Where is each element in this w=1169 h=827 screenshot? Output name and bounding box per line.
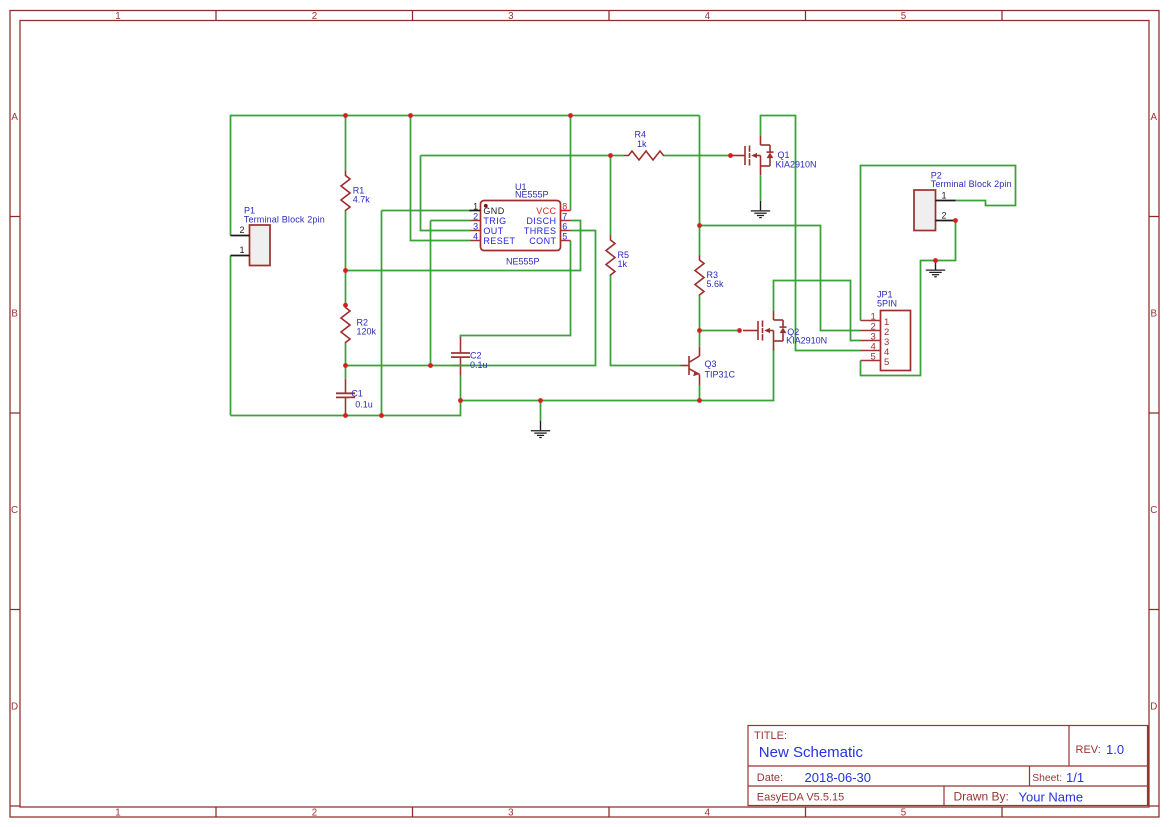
junction [953,218,958,223]
junction [428,363,433,368]
svg-text:1.0: 1.0 [1106,742,1124,757]
resistor R5 [606,236,615,276]
ground at bottom rail [531,421,550,438]
junction [697,223,702,228]
svg-text:2: 2 [312,11,317,22]
svg-text:3: 3 [473,221,478,231]
wire crossing over C2 pin [452,365,469,367]
wire ground rail bottom [231,350,774,416]
svg-text:4.7k: 4.7k [353,195,371,205]
connector JP1 5PIN body [881,311,911,371]
wire P1 pin1 to ground rail [230,256,232,416]
JP1 pin 1 [861,320,881,322]
junction [728,153,733,158]
junction [538,398,543,403]
wire node to R2 [345,271,347,306]
junction [568,113,573,118]
junction [343,113,348,118]
svg-text:8: 8 [562,201,567,211]
resistor R3 [695,256,704,296]
wire CONT to C2 [461,241,571,338]
transistor Q2 KIA2910N [743,311,787,351]
wire R3 to node [699,295,701,330]
junction [343,363,348,368]
wire DISCH to R1/R2 node [346,221,581,271]
wire node to JP1 pin2 [700,226,861,331]
svg-text:C: C [11,505,18,516]
svg-text:5: 5 [901,807,907,818]
U1 pin 8 VCC [561,210,571,212]
svg-text:5: 5 [884,357,889,368]
U1 pin 1 GND [470,210,481,212]
svg-text:2: 2 [473,211,478,221]
svg-text:5: 5 [871,351,876,362]
ground under Q1 [751,201,770,218]
svg-text:Q3: Q3 [705,359,717,369]
wire rail to ground symbol [540,401,542,421]
wire R5 to Q3 base [611,275,681,365]
svg-text:NE555P: NE555P [506,256,540,266]
U1 pin 7 DISCH [561,220,571,222]
wire JP1 pin1 to P2 pin1 [861,166,1016,321]
title block [748,726,1149,806]
U1 pin 5 CONT [561,240,571,242]
svg-text:2: 2 [239,225,244,235]
svg-text:GND: GND [483,206,504,216]
wire Q3 emitter to rail [699,385,701,400]
wire VCC to R1 [345,116,347,172]
transistor Q1 KIA2910N [730,136,774,176]
svg-text:REV:: REV: [1076,744,1101,756]
terminal block P1 [250,225,271,266]
svg-text:0.1u: 0.1u [355,399,373,409]
junction [408,113,413,118]
terminal block P2 [914,190,936,231]
svg-text:Drawn By:: Drawn By: [954,790,1009,804]
capacitor C1 [336,379,355,415]
svg-text:Your Name: Your Name [1019,789,1084,804]
U1 pin 2 TRIG [471,220,481,222]
U1 pin 3 OUT [471,230,481,232]
svg-text:1k: 1k [637,139,647,149]
svg-text:New Schematic: New Schematic [759,744,864,761]
wire P2 pin2 to JP1 pin5 [861,221,956,376]
svg-text:7: 7 [562,211,567,221]
wire VCC pin8 up [570,116,572,211]
transistor Q3 TIP31C [681,347,700,386]
wire R2 to node [345,343,347,366]
wire Q2 drain to JP1 pin3 [774,281,861,341]
wire OUT to R4 [421,155,625,157]
resistor R2 [341,303,350,343]
svg-text:5: 5 [901,11,907,22]
wire node to Q3 collector [699,331,701,347]
junction [343,268,348,273]
svg-text:B: B [11,308,18,319]
JP1 pin 2 [861,330,881,332]
svg-text:Terminal Block 2pin: Terminal Block 2pin [244,214,325,224]
wire node to R5 [610,156,612,236]
junction [343,413,348,418]
svg-text:1: 1 [115,11,120,22]
svg-text:1: 1 [239,245,244,255]
svg-text:DISCH: DISCH [526,216,556,226]
svg-text:C1: C1 [351,389,363,399]
U1 pin 4 RESET [471,240,481,242]
svg-text:KIA2910N: KIA2910N [786,336,827,346]
wire R1 to node [345,211,347,271]
svg-text:Terminal Block 2pin: Terminal Block 2pin [931,179,1012,189]
svg-text:3: 3 [508,11,514,22]
svg-text:5.6k: 5.6k [707,279,725,289]
svg-text:5: 5 [562,231,567,241]
svg-text:4: 4 [473,231,478,241]
wire C2 to ground rail [460,375,462,400]
wire VCC rail top [231,116,700,236]
capacitor C2 [451,337,470,375]
svg-text:4: 4 [705,11,711,22]
svg-text:A: A [11,112,18,123]
resistor R1 [341,171,350,211]
svg-text:3: 3 [508,807,514,818]
svg-text:1: 1 [115,807,120,818]
wire OUT up [421,156,471,231]
svg-text:120k: 120k [357,327,377,337]
svg-text:OUT: OUT [483,226,503,236]
svg-text:Sheet:: Sheet: [1032,773,1062,784]
svg-text:TITLE:: TITLE: [754,730,787,742]
wire GND stub [382,210,471,212]
svg-text:THRES: THRES [524,226,557,236]
junction [608,153,613,158]
junction [343,303,348,308]
svg-text:1k: 1k [618,259,628,269]
U1 pin 6 THRES [561,230,571,232]
op-amp U1 NE555P body [481,201,561,251]
svg-text:5PIN: 5PIN [877,298,897,308]
wire TRIG stub [431,220,471,222]
svg-text:Q1: Q1 [778,150,790,160]
svg-text:CONT: CONT [529,236,556,246]
wire THRES to R2/C1 node [346,231,596,366]
wire GND down [381,211,383,416]
JP1 pin 5 [861,360,881,362]
svg-text:EasyEDA V5.5.15: EasyEDA V5.5.15 [757,792,844,804]
svg-text:2: 2 [312,807,317,818]
junction [697,328,702,333]
JP1 pin 4 [861,350,881,352]
JP1 pin 3 [861,340,881,342]
svg-text:KIA2910N: KIA2910N [776,160,817,170]
svg-text:C: C [1150,505,1157,516]
wire Q1 source to ground [760,176,762,201]
junction [933,258,938,263]
wire Q1 drain to JP1 pin4 [761,116,861,351]
svg-text:B: B [1151,308,1158,319]
svg-text:0.1u: 0.1u [470,360,488,370]
svg-text:RESET: RESET [483,236,515,246]
svg-text:Date:: Date: [757,772,783,784]
svg-text:D: D [11,701,18,712]
wire node to Q2 gate [700,330,740,332]
wire VCC rail to R3 [699,116,701,256]
junction [737,328,742,333]
svg-text:C2: C2 [470,350,482,360]
svg-text:TIP31C: TIP31C [705,369,736,379]
svg-text:TRIG: TRIG [483,216,506,226]
wire R4 to Q1 gate [664,155,731,157]
svg-text:R4: R4 [635,129,647,139]
svg-text:D: D [1150,701,1157,712]
wire node to C1 [345,366,347,379]
svg-text:1: 1 [942,191,947,201]
junction [458,398,463,403]
resistor R4 [624,151,664,160]
svg-text:NE555P: NE555P [515,190,549,200]
junction [697,398,702,403]
svg-text:1: 1 [473,201,478,211]
svg-text:2: 2 [942,211,947,221]
junction [379,413,384,418]
wire TRIG down [430,221,432,366]
svg-text:A: A [1151,112,1158,123]
svg-text:VCC: VCC [536,206,556,216]
svg-text:4: 4 [705,807,711,818]
wire RESET to VCC [411,116,471,241]
svg-text:2018-06-30: 2018-06-30 [805,770,872,785]
svg-text:1/1: 1/1 [1066,770,1084,785]
ground near P2 [926,261,945,277]
svg-text:6: 6 [562,221,567,231]
